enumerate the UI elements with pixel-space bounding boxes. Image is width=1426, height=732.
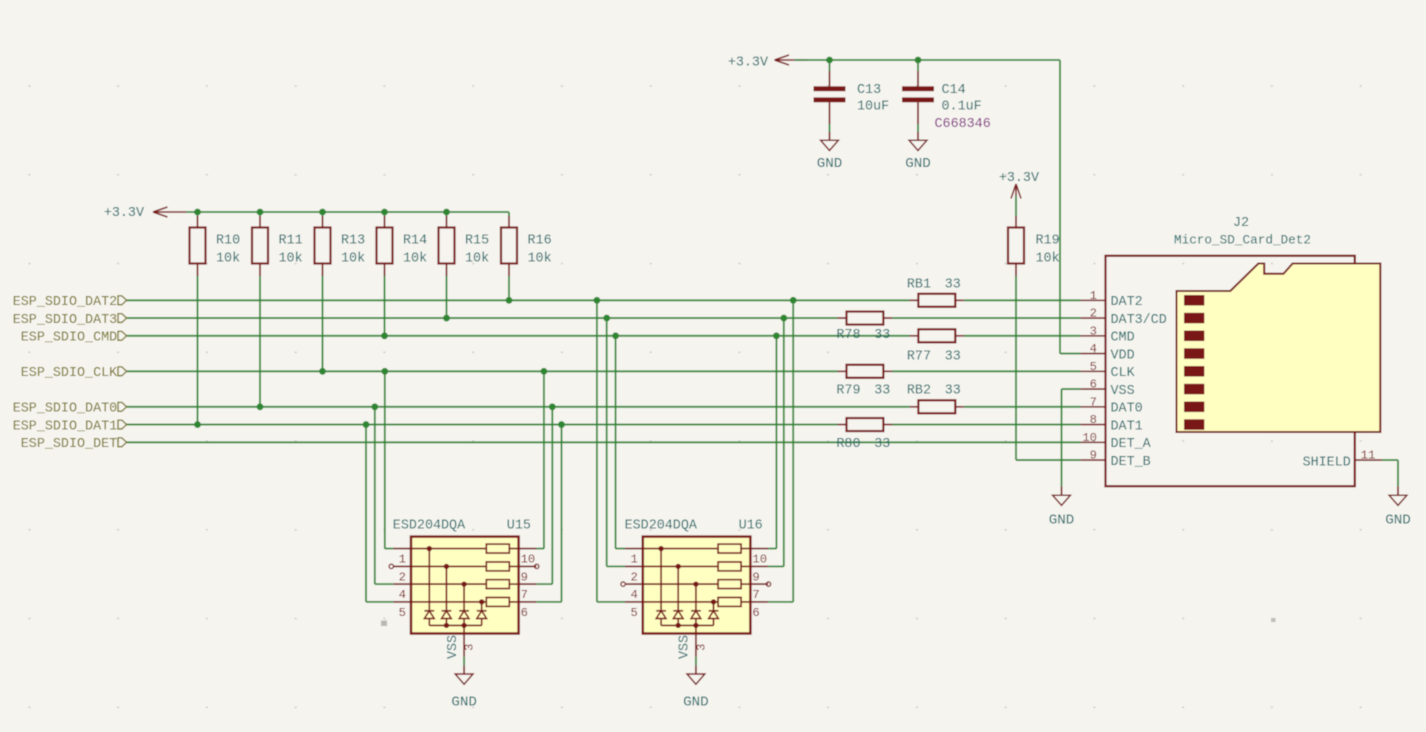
svg-text:ESP_SDIO_DAT0: ESP_SDIO_DAT0 [13, 402, 117, 417]
svg-text:+3.3V: +3.3V [104, 206, 144, 221]
svg-text:7: 7 [521, 588, 528, 602]
svg-text:2: 2 [630, 570, 637, 584]
svg-text:C13: C13 [857, 83, 881, 98]
svg-text:C14: C14 [942, 83, 966, 98]
svg-text:DET_B: DET_B [1111, 455, 1151, 470]
svg-text:VSS: VSS [1111, 384, 1135, 399]
svg-text:R10: R10 [216, 234, 240, 249]
svg-text:ESP_SDIO_DAT3: ESP_SDIO_DAT3 [13, 313, 117, 328]
svg-text:GND: GND [817, 156, 843, 172]
svg-text:7: 7 [752, 588, 759, 602]
svg-text:VSS: VSS [678, 635, 693, 659]
svg-text:4: 4 [1090, 342, 1097, 356]
svg-text:33: 33 [874, 384, 890, 399]
svg-text:RB2: RB2 [907, 384, 931, 399]
svg-text:10k: 10k [279, 252, 303, 267]
svg-text:R14: R14 [403, 234, 427, 249]
svg-text:2: 2 [1090, 307, 1097, 321]
svg-text:5: 5 [630, 606, 637, 620]
svg-text:U16: U16 [739, 518, 763, 533]
svg-text:0.1uF: 0.1uF [942, 100, 982, 115]
svg-text:10k: 10k [403, 252, 427, 267]
svg-text:10k: 10k [465, 252, 489, 267]
svg-text:GND: GND [1385, 512, 1411, 528]
svg-text:J2: J2 [1233, 216, 1249, 231]
svg-text:R11: R11 [279, 234, 303, 249]
svg-text:SHIELD: SHIELD [1303, 456, 1351, 471]
svg-text:7: 7 [1090, 395, 1097, 409]
svg-text:ESD204DQA: ESD204DQA [625, 518, 698, 533]
svg-text:9: 9 [521, 570, 528, 584]
svg-text:10k: 10k [528, 252, 552, 267]
svg-text:5: 5 [1090, 360, 1097, 374]
svg-text:DAT3/CD: DAT3/CD [1111, 313, 1167, 328]
svg-text:10: 10 [752, 553, 767, 567]
svg-text:VSS: VSS [446, 635, 461, 659]
svg-text:10: 10 [1082, 431, 1097, 445]
svg-text:DAT0: DAT0 [1111, 402, 1143, 417]
svg-text:3: 3 [694, 644, 708, 651]
svg-text:ESP_SDIO_DAT2: ESP_SDIO_DAT2 [13, 295, 117, 310]
svg-text:R80: R80 [836, 437, 860, 452]
svg-text:ESP_SDIO_DAT1: ESP_SDIO_DAT1 [13, 419, 117, 434]
svg-text:9: 9 [1090, 449, 1097, 463]
svg-text:+3.3V: +3.3V [728, 56, 768, 71]
svg-text:4: 4 [399, 588, 406, 602]
svg-text:CLK: CLK [1111, 366, 1136, 381]
svg-text:ESP_SDIO_DET: ESP_SDIO_DET [21, 437, 117, 452]
svg-text:8: 8 [1090, 413, 1097, 427]
svg-text:R13: R13 [341, 234, 365, 249]
svg-text:33: 33 [945, 350, 961, 365]
svg-text:R78: R78 [836, 328, 860, 343]
svg-text:6: 6 [521, 606, 528, 620]
svg-text:33: 33 [874, 437, 890, 452]
svg-text:+3.3V: +3.3V [999, 171, 1039, 186]
svg-text:1: 1 [399, 553, 406, 567]
svg-text:10uF: 10uF [857, 100, 889, 115]
svg-text:GND: GND [683, 695, 709, 711]
svg-text:DAT1: DAT1 [1111, 419, 1143, 434]
svg-text:33: 33 [945, 278, 961, 293]
svg-text:GND: GND [905, 156, 931, 172]
svg-text:1: 1 [630, 553, 637, 567]
svg-text:VDD: VDD [1111, 348, 1135, 363]
svg-text:33: 33 [874, 328, 890, 343]
svg-text:3: 3 [1090, 324, 1097, 338]
svg-text:R15: R15 [465, 234, 489, 249]
svg-text:33: 33 [945, 384, 961, 399]
svg-text:9: 9 [752, 570, 759, 584]
svg-text:DAT2: DAT2 [1111, 295, 1143, 310]
svg-text:Micro_SD_Card_Det2: Micro_SD_Card_Det2 [1174, 233, 1311, 248]
svg-text:GND: GND [451, 695, 477, 711]
svg-text:5: 5 [399, 606, 406, 620]
svg-text:10k: 10k [216, 252, 240, 267]
svg-text:R79: R79 [836, 384, 860, 399]
svg-text:C668346: C668346 [935, 117, 991, 132]
svg-text:2: 2 [399, 570, 406, 584]
svg-text:6: 6 [1090, 378, 1097, 392]
svg-text:RB1: RB1 [907, 278, 931, 293]
svg-text:4: 4 [630, 588, 637, 602]
svg-text:CMD: CMD [1111, 331, 1135, 346]
svg-text:ESP_SDIO_CMD: ESP_SDIO_CMD [21, 331, 117, 346]
svg-text:GND: GND [1049, 512, 1075, 528]
svg-text:10k: 10k [1036, 252, 1060, 267]
svg-text:R19: R19 [1036, 234, 1060, 249]
svg-text:11: 11 [1361, 449, 1376, 463]
svg-text:6: 6 [752, 606, 759, 620]
svg-text:U15: U15 [507, 518, 531, 533]
svg-text:ESP_SDIO_CLK: ESP_SDIO_CLK [21, 366, 118, 381]
svg-text:R16: R16 [528, 234, 552, 249]
svg-text:1: 1 [1090, 289, 1097, 303]
svg-text:3: 3 [463, 644, 477, 651]
svg-text:10: 10 [521, 553, 536, 567]
svg-text:ESD204DQA: ESD204DQA [393, 518, 466, 533]
svg-text:DET_A: DET_A [1111, 437, 1152, 452]
svg-text:R77: R77 [907, 350, 931, 365]
svg-text:10k: 10k [341, 252, 365, 267]
